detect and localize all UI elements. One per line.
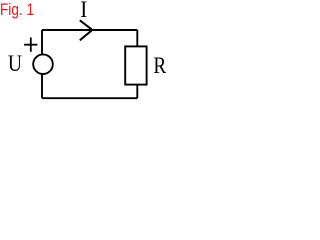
svg-text:I: I [80,0,87,22]
svg-text:U: U [8,50,22,76]
svg-text:R: R [153,53,167,79]
